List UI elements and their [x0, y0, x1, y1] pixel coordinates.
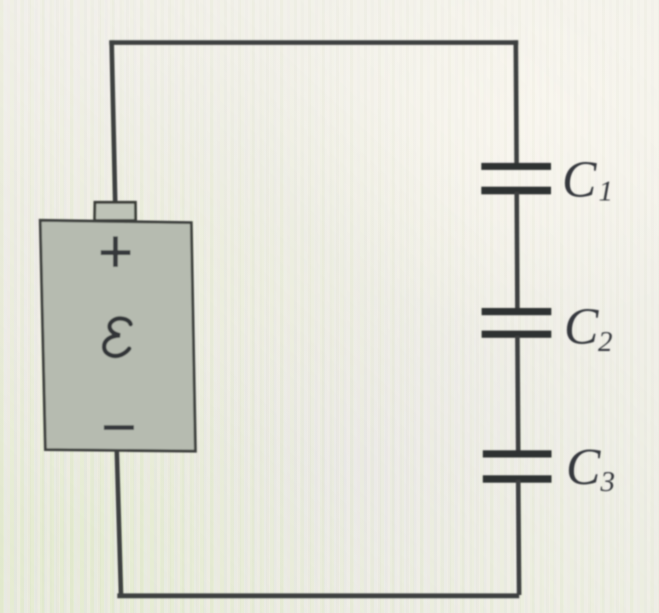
svg-text:1: 1 — [599, 176, 614, 208]
wire: right vertical, top segment (to C1) — [513, 40, 518, 165]
battery EMF script-E label — [104, 319, 131, 356]
svg-text:C: C — [566, 439, 601, 496]
svg-text:C: C — [562, 152, 597, 209]
wire: bottom horizontal — [117, 593, 519, 598]
wire: right vertical, bottom segment (C3 to bottom wire) — [516, 480, 521, 595]
svg-text:3: 3 — [600, 466, 616, 498]
capacitor C1 bottom plate — [481, 187, 551, 195]
battery B1 body — [40, 220, 195, 451]
wire: right vertical, segment C1-C2 — [514, 192, 519, 310]
battery minus symbol — [104, 425, 134, 430]
battery B1 terminal tab — [95, 202, 136, 220]
wire: top horizontal — [109, 40, 518, 45]
wire: right vertical, segment C2-C3 — [515, 336, 520, 453]
svg-text:2: 2 — [598, 326, 613, 358]
capacitor C1 top plate — [481, 163, 551, 170]
svg-text:C: C — [564, 299, 599, 356]
capacitor C2 top plate — [482, 308, 552, 315]
wire: left vertical lower (battery - terminal lead) — [117, 451, 121, 596]
capacitor C3 top plate — [483, 450, 552, 457]
label C1 — [562, 152, 613, 209]
capacitor C2 bottom plate — [482, 331, 552, 338]
label C2 — [564, 299, 613, 359]
label C3 — [566, 439, 615, 498]
capacitor C3 bottom plate — [483, 475, 552, 482]
wire: left vertical upper (battery + terminal lead) — [112, 40, 116, 202]
battery plus symbol — [101, 236, 131, 266]
